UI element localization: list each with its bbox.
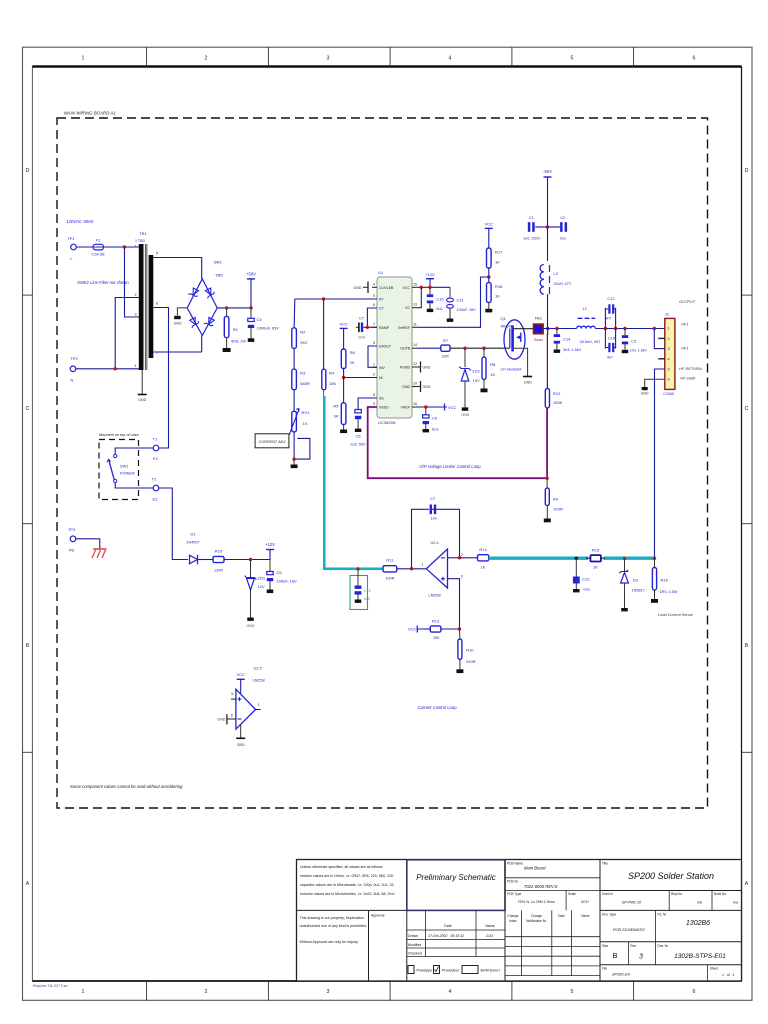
svg-text:L2: L2 [554,271,559,276]
zener ZD1 12V [245,560,266,618]
svg-text:UC3825N: UC3825N [378,420,396,425]
svg-text:Used in: Used in [602,892,613,896]
svg-text:GND: GND [174,322,182,326]
svg-text:GND: GND [423,366,431,370]
svg-text:C3: C3 [631,338,637,343]
svg-text:6: 6 [693,989,696,995]
svg-text:0u1: 0u1 [364,597,370,601]
svg-text:GND: GND [461,413,469,417]
op-amp U2:1 LM258 [422,540,463,597]
terminal T2 [152,476,159,501]
U1 pin 15 VCC [403,282,417,290]
capacitor C5 100uF 16V [267,560,297,590]
wire feedback loop C7 [412,509,460,569]
junction node C16 tap [428,286,431,289]
svg-text:1K: 1K [303,421,308,426]
svg-text:CURRENT ADJ: CURRENT ADJ [259,440,286,444]
svg-text:F1: F1 [96,238,101,243]
svg-text:1: 1 [422,563,424,567]
junction node R16 load sense [653,557,656,560]
svg-text:2: 2 [373,373,375,377]
svg-text:1R0, 0.5W: 1R0, 0.5W [660,590,678,594]
svg-text:C15: C15 [608,336,616,341]
wire OUTB to R7 [417,347,441,349]
zener ZD2 10V [459,348,480,407]
svg-text:2: 2 [205,989,208,995]
svg-text:Approval: Approval [371,914,385,918]
svg-text:C10: C10 [582,577,590,582]
svg-text:VCC: VCC [236,672,245,677]
wire bridge output rail +50V node [217,307,251,309]
junction node filter left [604,327,607,330]
svg-text:1: 1 [373,362,375,366]
wire J2 pin5 to load sense [655,369,665,559]
svg-text:150K: 150K [553,400,563,405]
svg-text:1K: 1K [495,260,500,265]
svg-text:C11: C11 [457,298,465,303]
junction node gate divider [487,275,490,278]
svg-text:1: 1 [82,56,85,62]
wire TP1 to F1 [76,246,93,248]
preliminary schematic cell [407,860,505,911]
title block outline [297,860,742,982]
svg-text:Production: Production [442,969,459,973]
resistor R16 1R0 0.5W [652,558,677,599]
wire R11 to U2:1 [397,568,427,570]
svg-text:C14: C14 [563,336,571,341]
used in cell [600,891,742,911]
svg-text:VREF: VREF [401,406,410,410]
ground ZD2 [461,407,469,417]
junction node C14 tap [555,327,558,330]
wire D1 to R15 [198,559,214,561]
capacitor C10 0u1 [573,558,591,591]
svg-text:Notification Nr.: Notification Nr. [526,919,547,923]
svg-text:CT: CT [359,316,365,321]
svg-text:2: 2 [668,337,670,341]
svg-text:Some component values cannot b: Some component values cannot be read wit… [70,784,183,789]
wire J2 pin1 to pin3 bridge [654,329,665,349]
svg-text:PCB Nr.: PCB Nr. [507,880,519,884]
svg-text:GND: GND [402,385,410,389]
svg-text:SS: SS [379,397,384,401]
svg-text:GND: GND [524,381,532,385]
svg-text:On Heatsink: On Heatsink [501,368,523,372]
U1 pin 14 OUTB [400,343,417,351]
U1 pin 11 IlmREF [398,322,417,330]
ground U2:2 pin6 [217,714,236,724]
svg-text:LM258: LM258 [253,678,266,683]
svg-text:MAIN WIRING BOARD A1: MAIN WIRING BOARD A1 [64,111,116,116]
svg-text:5: 5 [231,692,233,696]
wire VREF to VCC [417,406,445,408]
junction node R13 pin3 [458,627,461,630]
wire J2 pin2 stub [658,337,665,339]
svg-text:+50V: +50V [246,272,256,277]
wire R4 to teal [323,390,326,397]
junction node ZD2 tap [463,347,466,350]
svg-text:Current Control Loop: Current Control Loop [417,705,457,710]
svg-text:Main Board: Main Board [524,866,546,871]
ground RV1 [291,459,298,468]
junction node RT/R4 [322,297,325,300]
svg-text:GND: GND [423,385,431,389]
wire U2:1 pin3 stub [448,579,460,629]
svg-text:TR1: TR1 [139,231,147,236]
svg-text:SCH: SCH [581,900,589,904]
svg-text:n/a: n/a [733,901,738,905]
test point TP2 [70,356,78,383]
junction node limiter divider [545,477,548,480]
svg-text:120R: 120R [214,569,223,573]
svg-text:E1: E1 [153,456,159,461]
svg-text:+12V: +12V [265,542,275,547]
wire F1 to TR1 pin1 [104,246,140,248]
svg-text:GJO: GJO [486,934,493,938]
svg-text:6: 6 [231,714,233,718]
svg-text:Sheet: Sheet [710,967,718,971]
svg-text:1: 1 [668,327,670,331]
ground C11 [447,319,454,322]
resistor R15 1K bus [590,548,601,570]
svg-text:R18: R18 [495,284,503,289]
svg-text:ZD2: ZD2 [472,368,480,373]
svg-text:VCC: VCC [339,322,348,327]
wire IlmREF to divider [417,277,489,327]
transistor Q1 IRF540 [501,316,526,359]
svg-text:8: 8 [373,393,375,397]
svg-text:4: 4 [135,364,137,368]
svg-text:RV1: RV1 [302,410,310,415]
svg-text:R12: R12 [553,391,561,396]
wire bus resistor stubs [586,557,605,559]
wire L1 to J2 [595,328,665,330]
svg-text:6: 6 [668,378,670,382]
wire TP2 to TR1 pin4 [76,368,139,370]
svg-text:CLK/LEB: CLK/LEB [379,286,394,290]
svg-text:14: 14 [413,343,417,347]
svg-text:3: 3 [135,313,137,317]
svg-text:12: 12 [413,362,417,366]
svg-text:A: A [26,881,30,887]
power VCC at U2:2 [236,672,245,694]
svg-text:Title: Title [602,862,608,866]
test point TP1 [67,236,76,261]
U1 pin 13 VC [405,303,417,311]
wire RV1 wiper to bottom [294,438,310,459]
svg-text:R7: R7 [443,338,449,343]
capacitor C11 100uF 16V [447,287,477,318]
svg-text:Q1: Q1 [501,316,507,321]
ground C9 [423,429,430,432]
svg-text:PCB SCHEMATIC: PCB SCHEMATIC [613,927,646,932]
svg-text:3: 3 [327,56,330,62]
svg-text:C: C [26,406,30,412]
svg-text:R3: R3 [300,371,306,376]
svg-text:Drawn: Drawn [408,934,418,938]
svg-text:RAMP: RAMP [379,326,390,330]
junction node C1 C2 rail [546,225,549,228]
svg-text:Index: Index [509,919,517,923]
resistor R13 15K [424,619,460,641]
svg-text:1302B-STPS-E01: 1302B-STPS-E01 [674,953,726,960]
wire U2:1 pin2 stub [448,557,460,559]
svg-text:4n7: 4n7 [607,356,613,360]
svg-text:1K: 1K [495,294,500,299]
power +12V input rail [265,542,275,560]
svg-text:3: 3 [639,954,643,961]
frame zone column ticks top [147,47,634,66]
svg-text:120VAC 60Hz: 120VAC 60Hz [66,219,94,224]
svg-text:R17: R17 [495,250,503,255]
power VCC at R13 [408,626,424,633]
svg-text:R11: R11 [386,558,394,563]
svg-text:C1: C1 [529,215,535,220]
svg-text:VCC: VCC [485,222,494,227]
svg-text:B: B [612,951,617,960]
svg-text:1K: 1K [490,372,495,377]
junction node F1/TR1 [123,245,126,248]
svg-text:1K: 1K [593,565,598,570]
junction node R8 tap [482,347,485,350]
capacitor C2 0u1 [548,215,568,241]
ground D3 [621,608,628,611]
svg-text:VCC: VCC [408,627,417,632]
svg-text:TP3: TP3 [68,527,76,532]
protective earth symbol [92,549,107,558]
drawn table [407,860,505,982]
svg-text:D1: D1 [190,532,196,537]
svg-text:2K: 2K [350,360,355,365]
junction node FB1 output [546,327,549,330]
resistor R3 680R [292,348,310,389]
svg-text:680R: 680R [300,381,310,386]
U1 pin 10 GND [402,382,417,390]
svg-text:D: D [26,168,30,174]
svg-text:3n3, 1.6kV: 3n3, 1.6kV [563,348,582,352]
svg-text:VC: VC [405,306,410,310]
svg-text:BOM Done?: BOM Done? [481,969,501,973]
wire U2:2 to ground [240,724,242,738]
resistor R9 910R [545,478,563,518]
svg-text:R5: R5 [333,404,339,409]
svg-text:PE: PE [69,548,75,553]
svg-text:12V: 12V [258,584,265,589]
ground C3 [622,350,629,353]
svg-text:4: 4 [449,56,452,62]
terminal T1 [153,437,159,462]
frame zone column ticks bottom [147,981,634,1000]
wire J2 pin4 stub [658,358,665,360]
svg-text:Requires TdL-037 F.art: Requires TdL-037 F.art [33,984,68,988]
capacitor C4 1000uF 63V [248,308,279,338]
current adj callout box [255,434,289,448]
svg-text:10: 10 [413,382,417,386]
junction node VCC pin [420,286,423,289]
ground U1 CLK/LEB [354,282,369,294]
transformer screen ground [138,370,147,402]
svg-text:PCB Type: PCB Type [507,892,522,896]
svg-text:GND: GND [217,718,225,722]
junction node U2:1 inverting [410,567,413,570]
ground C14 [554,350,561,353]
svg-text:13: 13 [413,303,417,307]
svg-text:INV: INV [379,366,386,370]
svg-text:Prj. Nr: Prj. Nr [657,913,667,917]
wire L2 to output node [547,294,549,329]
ground R9 [544,519,551,523]
pcb name cell [505,860,600,982]
svg-text:FR4 2L 1u 20M 1.5mm: FR4 2L 1u 20M 1.5mm [518,900,555,904]
svg-text:IlmSD: IlmSD [379,406,389,410]
power VCC above R6 [339,322,348,350]
svg-text:Load Current Sense: Load Current Sense [658,612,694,617]
svg-text:LM258: LM258 [429,592,442,597]
op-amp U2:2 LM258 [231,666,266,730]
junction node C4 tap [249,306,252,309]
U1 pin 12 PGND [400,362,417,370]
svg-text:R4: R4 [329,371,335,376]
wire TR1 pin2 to neutral riser [115,298,139,369]
wire bridge bottom corner [201,336,203,353]
svg-text:SP-PW1-10: SP-PW1-10 [622,901,641,905]
ground U1 GND [417,381,431,392]
svg-text:100uF, 16V: 100uF, 16V [277,579,298,584]
svg-text:1u0, 250V: 1u0, 250V [523,237,541,241]
capacitor C6 2u2 50V [350,410,366,447]
svg-text:ZD1: ZD1 [258,576,266,581]
wire R15 to +12V node [224,559,270,561]
svg-text:D: D [745,168,749,174]
U1 pin 3 EAOUT [372,341,392,349]
svg-text:3: 3 [327,989,330,995]
junction node pin2 feedback [458,556,461,559]
resistor R6 2K [341,349,355,378]
wire U2:2 pin5 stub [231,698,236,700]
junction node C green tap [356,567,359,570]
svg-text:R10: R10 [466,648,474,653]
wire EAOUT to INV feedback [368,346,377,367]
ground bridge negative [174,316,182,326]
wire SW1 top to T1 [115,448,153,454]
ground R8 [481,389,488,393]
svg-text:+12V: +12V [425,272,435,277]
svg-text:6K8, 1W: 6K8, 1W [231,339,246,343]
svg-text:11: 11 [413,322,417,326]
svg-text:Change: Change [507,914,518,918]
ground U2:2 [236,738,245,747]
svg-text:1302B6: 1302B6 [686,920,710,927]
U1 pin 9 IlmSD [372,402,389,410]
capacitor C9 0u1 [423,407,440,432]
wire Q1 drain to FB1 [514,328,534,330]
frame zone row ticks right [742,295,753,752]
svg-text:B: B [745,643,749,649]
wire R7 to Q1 gate [450,347,510,349]
svg-text:R2: R2 [300,330,306,335]
frame zone letters right [745,168,749,887]
svg-text:5: 5 [373,294,375,298]
svg-text:5: 5 [156,252,158,256]
svg-text:HF-RETURN: HF-RETURN [679,366,702,371]
resistor R17 1K [487,248,504,277]
svg-text:C7: C7 [430,496,436,501]
wire TR1 pin6 to T1 [154,308,169,449]
svg-text:1: 1 [135,245,137,249]
change index table [505,910,600,981]
svg-text:0u1: 0u1 [432,427,439,432]
switch SW1 POWER [107,454,135,482]
title cell [600,862,742,891]
svg-text:5: 5 [668,368,670,372]
svg-text:100R: 100R [385,577,394,581]
resistor R1 6K8 1W [224,308,246,348]
svg-text:10n, 1.6kV: 10n, 1.6kV [630,348,648,352]
svg-text:C12: C12 [607,296,615,301]
size rev cell [600,942,742,965]
svg-text:D3: D3 [633,578,639,583]
svg-text:6: 6 [156,302,158,306]
ground C16 [427,309,434,312]
svg-text:1N5817: 1N5817 [632,589,645,593]
svg-text:1000uF, 63V: 1000uF, 63V [257,325,280,330]
svg-text:1N4007: 1N4007 [186,541,199,545]
capacitor C16 0u1 [427,287,445,311]
svg-text:PCB Name: PCB Name [507,862,523,866]
svg-text:EAOUT: EAOUT [379,345,392,349]
resistor R5 3K [333,378,346,430]
junction node RV1 bottom [292,457,295,460]
svg-text:Prototype: Prototype [417,969,432,973]
resistor R12 150K [545,389,562,408]
wire pin2 to R14 [460,557,478,559]
svg-text:O/P Voltage Limiter Control Lo: O/P Voltage Limiter Control Loop [419,464,481,469]
connector J2 CON6 [663,312,675,396]
svg-text:U2:2: U2:2 [254,666,263,671]
svg-text:GND: GND [358,336,366,340]
svg-text:A: A [745,881,749,887]
svg-text:C13: C13 [364,589,371,593]
svg-text:2u2, 50V: 2u2, 50V [350,443,366,447]
wire TP3 to earth [76,539,100,549]
resistor R14 1K [478,547,489,570]
checkbox prototype [408,966,432,974]
svg-text:15K: 15K [329,381,336,386]
frame zone numbers bottom [82,989,696,995]
wire bridge left corner to ground [177,308,187,316]
svg-text:4: 4 [373,282,375,286]
wire TR1 pin7 to bridge [154,351,202,353]
svg-text:6: 6 [373,303,375,307]
svg-text:0u1: 0u1 [583,587,590,592]
svg-text:R1: R1 [233,327,239,332]
U1 pin 5 RT [372,294,384,302]
potentiometer RV1 1K [289,390,310,459]
svg-text:C: C [745,406,749,412]
svg-text:7022-0000 REV:0: 7022-0000 REV:0 [524,884,558,889]
junction node NI divider [342,376,345,379]
svg-text:SP200.sch: SP200.sch [612,973,630,977]
frame zone letters left [26,168,30,887]
highlight box C13 [350,576,368,610]
resistor R8 1K [482,348,496,388]
wire purple voltage limiter loop [368,407,547,478]
svg-text:E2: E2 [153,497,159,502]
junction node filter right [614,327,617,330]
svg-text:Build No.: Build No. [714,892,727,896]
inductor L2 30uH 47T [540,264,572,294]
svg-text:SP200 Solder Station: SP200 Solder Station [628,871,714,881]
